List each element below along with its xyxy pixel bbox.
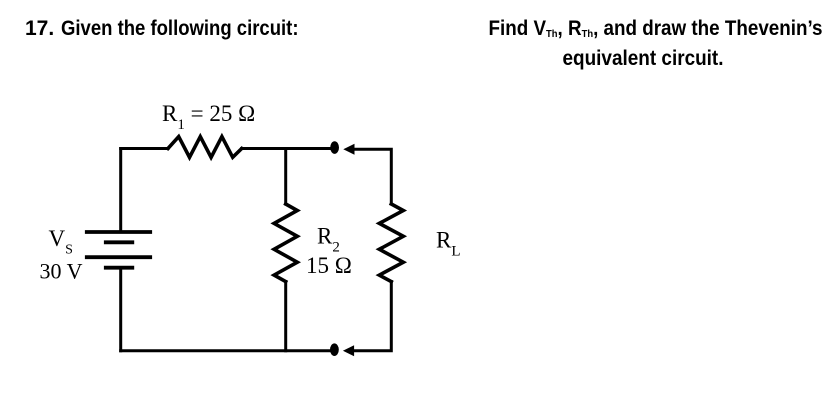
wire R2 branch lower vertical	[284, 282, 287, 351]
arrowhead into node A	[343, 144, 354, 155]
svg-text:15 Ω: 15 Ω	[306, 253, 352, 278]
svg-text:30 V: 30 V	[40, 258, 83, 283]
battery VS long plate top	[87, 230, 150, 234]
svg-text:Find VTh, RTh, and draw the Th: Find VTh, RTh, and draw the Thevenin’s	[489, 17, 823, 40]
wire bottom-right (RL down to corner and arrow shaft)	[354, 282, 392, 351]
resistor R2	[274, 204, 297, 282]
wire top-right (arrow shaft to right corner and down to RL)	[354, 149, 392, 204]
node A (top junction dot)	[330, 141, 339, 154]
wire left vertical upper (corner down to battery)	[119, 149, 122, 233]
wire top middle (R1 to node A)	[242, 147, 334, 150]
wire top-left horizontal (left corner to R1)	[121, 147, 168, 150]
svg-text:17.: 17.	[25, 17, 54, 40]
battery VS long plate lower	[87, 255, 150, 259]
resistor RL	[379, 204, 403, 282]
node B (bottom junction dot)	[330, 343, 339, 356]
resistor R1	[168, 137, 242, 158]
arrowhead into node B	[343, 345, 354, 356]
wire bottom rail (left corner to node B)	[121, 349, 334, 352]
svg-text:equivalent circuit.: equivalent circuit.	[563, 47, 724, 70]
question text "17. Given the following circuit:"	[25, 17, 299, 40]
battery VS short plate bottom	[106, 266, 133, 270]
svg-text:Given the following circuit:: Given the following circuit:	[61, 17, 299, 40]
wire left vertical lower (battery down to bottom rail)	[119, 268, 122, 351]
battery VS short plate upper	[106, 240, 133, 244]
wire R2 branch upper vertical	[284, 149, 287, 205]
